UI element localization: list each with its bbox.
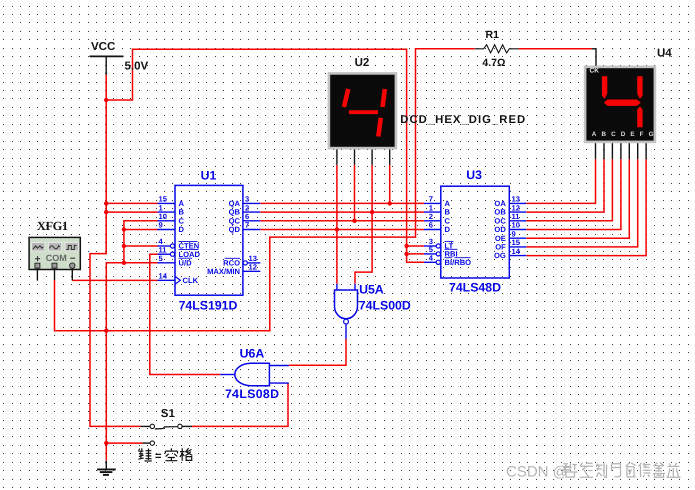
junction ground vertical to S1 lower throw [104,441,108,445]
wire ground vertical to S1 lower throw [106,442,142,444]
svg-text:13: 13 [512,195,520,204]
wire VCC vertical down then left then down to S1 pole [90,75,141,427]
svg-text:QC: QC [229,216,241,225]
junction U2 pin3 on QB row [370,210,374,214]
svg-text:U5A: U5A [359,283,384,297]
wire VCC to U1 pin A [106,202,157,204]
svg-text:6: 6 [245,212,249,221]
svg-text:A: A [179,199,185,208]
wire S1 right to U6A input2 [192,383,288,426]
svg-text:OE: OE [495,234,506,243]
U1 clock triangle [175,277,180,284]
svg-text:9: 9 [159,221,163,230]
wire U1 QC row to U3 C [260,220,424,222]
svg-text:10: 10 [159,212,167,221]
wire U6A output to U1 LOAD [150,254,220,374]
wire XFG1 COM to R1 left lead (ground net) [55,49,475,331]
and gate U6A 74LS08D [220,346,289,400]
wire U2 pin1 down to U5A input1 (QD net) [336,165,338,284]
svg-text:4.7Ω: 4.7Ω [482,57,505,69]
wire U3 OC to U4 pin C [526,159,612,221]
svg-text:11: 11 [512,212,521,221]
junction at U3 RBI [404,252,408,256]
svg-text:B: B [179,208,185,217]
junction tie bus to U1 CTEN [122,244,126,248]
switch S1 [141,408,193,446]
wire U3 OA to U4 pin A [526,159,595,203]
svg-text:S1: S1 [161,408,176,420]
wire U1 QB row to U3 B [260,211,424,213]
junction at VCC branch [104,98,108,102]
wire U3 OE to U4 pin E [526,159,629,238]
wire U3 OF to U4 pin F [526,159,637,247]
wire VCC branch top rail to U3 BI/RBO [106,49,424,262]
U1 pin names [179,199,241,285]
svg-text:B: B [445,208,451,217]
svg-text:VCC: VCC [91,41,115,53]
U1 pin numbers [159,195,257,281]
wire U1 QD row to U3 D [260,229,424,231]
wire U1 pin C with vertical tie bus [124,221,158,263]
svg-text:QD: QD [229,225,241,234]
svg-text:74LS48D: 74LS48D [449,280,501,294]
svg-text:OC: OC [494,216,506,225]
U3 pin stubs right [509,203,526,255]
svg-text:U4: U4 [657,48,672,60]
U1 inversion bubbles CTEN LOAD RCO [170,244,247,265]
U3 pin names [445,199,507,267]
svg-text:MAX/MIN: MAX/MIN [207,267,240,276]
U3 inversion bubbles LT RBI BI/RBO [436,244,440,265]
svg-text:OD: OD [494,225,506,234]
wire U2 pin2 down to QC row [354,165,356,221]
wire U3 OG to U4 pin G [526,159,646,256]
U1 pin stubs right [243,203,260,271]
junction at U3 LT [404,244,408,248]
svg-text:74LS08D: 74LS08D [225,387,279,401]
junction U2 pin4 on QA row [388,201,392,205]
display U4 seven segment [585,48,672,142]
svg-text:3: 3 [245,195,249,204]
decoder U3 74LS48D [441,168,510,294]
svg-text:BI/RBO: BI/RBO [445,258,472,267]
svg-text:OF: OF [495,243,506,252]
resistor R1 4.7ohm [475,29,519,69]
svg-text:7: 7 [429,195,433,204]
power VCC symbol [90,41,124,75]
wire U3 OB to U4 pin B [526,159,604,212]
value label DCD_HEX_DIG_RED [400,114,525,126]
svg-text:XFG1: XFG1 [37,219,68,233]
wire VCC to U1 pin B [106,211,157,213]
svg-text:6: 6 [429,221,433,230]
svg-text:OB: OB [494,208,506,217]
svg-text:U6A: U6A [240,346,265,360]
svg-text:CLK: CLK [183,276,199,285]
watermark CSDN [506,463,681,481]
wire U5A output to U6A input1 [289,339,346,365]
svg-text:U3: U3 [466,168,482,182]
wire U1 pin CTEN [124,245,158,247]
svg-text:10: 10 [512,221,520,230]
svg-text:14: 14 [159,272,168,281]
svg-text:R1: R1 [486,29,500,41]
svg-text:15: 15 [512,238,521,247]
U1 pin stubs left [158,203,176,280]
function generator XFG1 [29,219,80,281]
svg-text:QB: QB [229,208,241,217]
svg-text:C: C [179,216,185,225]
junction tie bus to U1 U/D [122,261,126,265]
svg-text:5.0V: 5.0V [125,61,149,73]
key label: jian = kongge [138,448,192,462]
svg-text:D: D [445,225,451,234]
svg-text:COM: COM [46,253,67,263]
U4 CK pin stub [592,49,596,66]
svg-text:7: 7 [245,221,249,230]
display U2 DCD_HEX_DIG_RED [329,57,396,148]
svg-text:=: = [155,450,161,462]
svg-text:12: 12 [249,263,257,272]
svg-text:CSDN @: CSDN @ [506,464,568,481]
wire to U3 RBI pin [407,253,424,255]
svg-text:2: 2 [245,203,249,212]
junction U2 pin1 on QD row [335,227,339,231]
wire R1 right lead to U4 CK [519,48,592,50]
wire U1 U/D row to ground vertical [106,263,157,461]
svg-text:OA: OA [494,199,506,208]
svg-text:14: 14 [512,247,521,256]
svg-text:C: C [445,216,451,225]
svg-text:D: D [179,225,185,234]
wire U1 pin D [124,229,158,231]
wire U1 QA row to U3 A [260,202,424,204]
svg-text:74LS191D: 74LS191D [179,298,238,312]
svg-text:QA: QA [229,199,241,208]
U3 pin stubs left [424,203,441,262]
junction U2 pin2 on QC row [352,219,356,223]
junction VCC to U1 B [104,210,108,214]
junction tie bus to U1 D [122,227,126,231]
svg-text:74LS00D: 74LS00D [359,299,411,313]
counter U1 74LS191D [175,168,243,312]
wire U2 pin3 down jog to U5A input2 (QB net) [355,165,372,284]
svg-text:15: 15 [159,195,168,204]
junction ground vertical and COM wire [104,329,108,333]
value label 5.0V [125,61,149,73]
svg-text:U1: U1 [201,168,217,182]
wire XFG1 minus to U1 CLK [72,279,157,281]
svg-text:A: A [445,199,451,208]
ground symbol [97,461,116,475]
wire to U3 LT pin [407,245,424,247]
svg-text:9: 9 [512,229,516,238]
U4 bottom pin stubs [596,143,647,159]
wire U2 pin4 down to QA row [389,165,391,204]
nand gate U5A 74LS00D [335,283,411,340]
junction VCC to U1 A [104,201,108,205]
svg-text:CK: CK [590,68,600,75]
svg-text:2: 2 [429,212,433,221]
U3 pin numbers [429,195,521,263]
svg-text:ABCDEFG: ABCDEFG [592,131,659,138]
svg-text:U2: U2 [355,57,370,69]
svg-text:U/D: U/D [179,258,193,267]
U2 pin stubs [337,149,390,164]
wire U3 OD to U4 pin D [526,159,621,229]
svg-text:DCD_HEX_DIG_RED: DCD_HEX_DIG_RED [400,114,525,126]
svg-text:OG: OG [494,251,506,260]
svg-text:12: 12 [512,203,520,212]
